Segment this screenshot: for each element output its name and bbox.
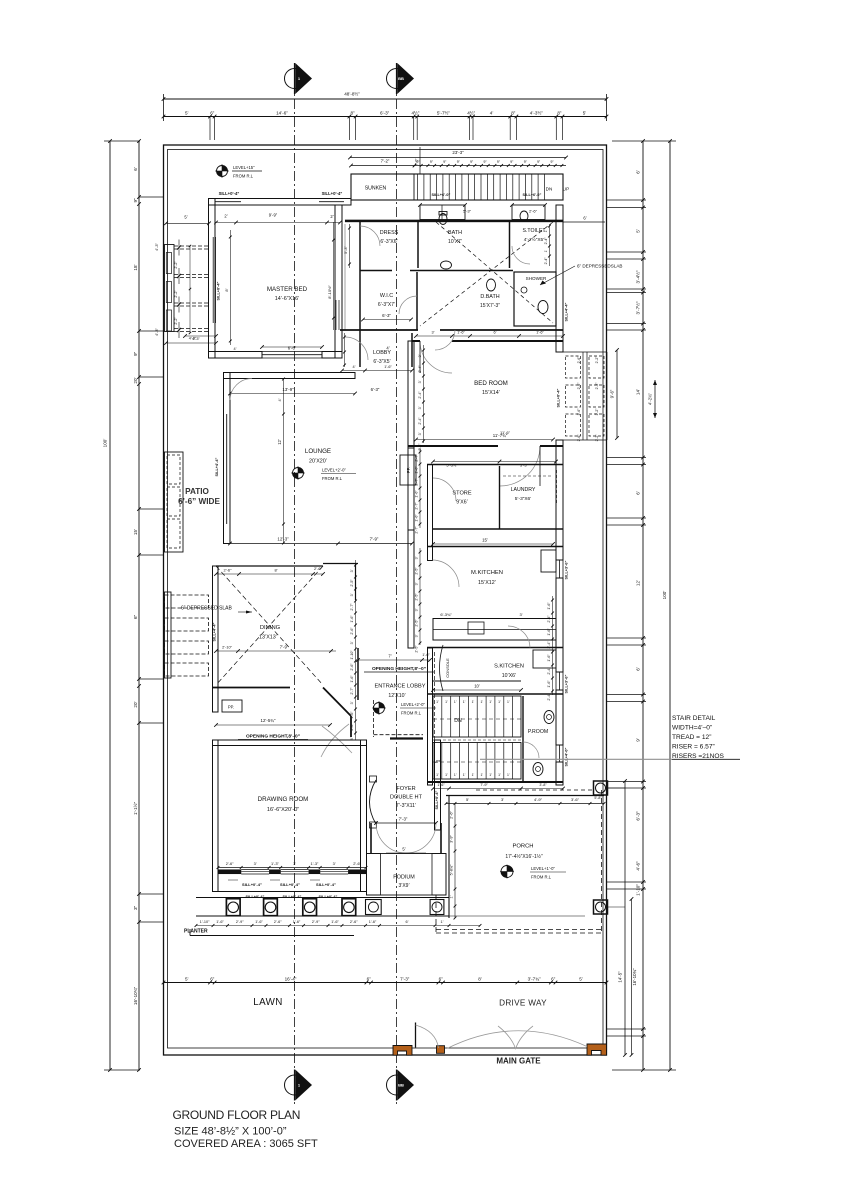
svg-text:3’-6”: 3’-6” — [571, 797, 580, 802]
right tick rows — [607, 199, 646, 201]
svg-text:5’: 5’ — [185, 111, 189, 116]
gate post right — [587, 1044, 607, 1055]
porch top dim row — [446, 803, 604, 805]
svg-text:SILL+4’-0”: SILL+4’-0” — [565, 747, 569, 766]
dining north dim — [216, 573, 323, 575]
lounge south dim — [230, 543, 412, 545]
hall vertical dim right of master — [344, 224, 346, 330]
svg-text:2’-2”: 2’-2” — [595, 357, 599, 364]
svg-text:3’: 3’ — [415, 582, 419, 585]
svg-text:10’X7’: 10’X7’ — [448, 239, 462, 245]
porch level symbol — [501, 866, 513, 878]
svg-text:ENTRANCE LOBBY: ENTRANCE LOBBY — [375, 684, 426, 690]
svg-text:1’-6”: 1’-6” — [422, 653, 430, 657]
svg-text:1’: 1’ — [480, 773, 483, 777]
svg-text:2’-5”: 2’-5” — [415, 645, 419, 653]
svg-text:M.KITCHEN: M.KITCHEN — [471, 570, 503, 576]
patio door arc lounge — [230, 379, 252, 401]
lounge level symbol — [293, 468, 304, 479]
svg-text:15’: 15’ — [133, 529, 138, 535]
master bed east wall — [335, 205, 342, 358]
svg-text:CONSOLE: CONSOLE — [445, 658, 450, 678]
svg-text:3’: 3’ — [415, 556, 419, 559]
dining 12-5 dim — [216, 724, 330, 726]
svg-text:7’-3”: 7’-3” — [400, 977, 410, 982]
building top wall — [209, 199, 352, 206]
right dim line inner — [642, 141, 644, 1070]
bedroom top dim row — [416, 335, 563, 337]
drawing east wall — [361, 740, 367, 892]
svg-text:5’: 5’ — [402, 847, 405, 852]
porch dashed left stub — [435, 895, 437, 933]
master south wall segment east — [322, 352, 342, 359]
svg-text:5’: 5’ — [185, 977, 189, 982]
section line A — [294, 63, 296, 1105]
svg-text:3’-7¾”: 3’-7¾” — [528, 977, 541, 982]
svg-text:LEVEL+2’-0”: LEVEL+2’-0” — [401, 702, 425, 707]
porch west wall — [448, 796, 450, 919]
svg-text:2’-6”: 2’-6” — [223, 568, 232, 573]
svg-text:SILL+3’-6”: SILL+3’-6” — [565, 674, 569, 693]
dining north edge — [216, 565, 323, 567]
UP treads — [441, 743, 443, 780]
lobby bottom dim row — [342, 370, 412, 372]
closet above s.toilet — [512, 205, 545, 220]
wicket door arc — [416, 1025, 439, 1048]
svg-text:SILL+0’-4”: SILL+0’-4” — [322, 191, 343, 196]
svg-text:3’: 3’ — [418, 380, 422, 383]
svg-text:2’-6”: 2’-6” — [226, 861, 234, 866]
svg-text:SILL+4’-4”: SILL+4’-4” — [565, 302, 569, 321]
column C3 — [303, 899, 317, 916]
svg-text:2’-2”: 2’-2” — [174, 317, 178, 325]
svg-text:2’-4”: 2’-4” — [544, 258, 548, 265]
building west wall master block — [209, 199, 216, 359]
master south window — [262, 351, 322, 353]
svg-text:5’-3”X6’: 5’-3”X6’ — [515, 496, 532, 502]
svg-text:1’: 1’ — [463, 773, 466, 777]
svg-text:7’-9”: 7’-9” — [370, 537, 379, 542]
bedroom north wall — [412, 340, 420, 342]
svg-text:BATH: BATH — [448, 230, 462, 236]
left bay dashed bands — [174, 245, 209, 247]
svg-text:1’: 1’ — [472, 700, 475, 704]
left bay cross ticks — [177, 245, 181, 249]
svg-text:2’-7”: 2’-7” — [415, 454, 419, 462]
DN treads — [441, 696, 443, 737]
svg-text:3’: 3’ — [501, 797, 504, 802]
dbath wc — [487, 279, 496, 291]
store door arc — [433, 478, 456, 501]
dim ladder left of entrance — [355, 560, 357, 740]
bedroom bay window right — [563, 351, 607, 353]
svg-text:7’-9”: 7’-9” — [280, 645, 289, 650]
svg-text:6”: 6” — [551, 977, 556, 982]
wic east wall — [416, 272, 418, 330]
svg-text:1’: 1’ — [436, 700, 439, 704]
svg-text:6’: 6’ — [133, 167, 138, 171]
kitchen west door arc — [433, 560, 460, 587]
svg-text:3’X9’: 3’X9’ — [398, 883, 409, 889]
svg-text:1’-6”: 1’-6” — [350, 711, 354, 719]
svg-text:5’: 5’ — [184, 215, 187, 220]
left chain stub ticks — [139, 196, 164, 198]
svg-text:1’-6”: 1’-6” — [350, 615, 354, 623]
svg-text:PP.: PP. — [228, 705, 234, 710]
svg-text:6”: 6” — [133, 614, 138, 619]
dining west wall — [213, 566, 219, 712]
podium box — [367, 854, 447, 896]
small ticks row above bath closets — [418, 203, 422, 207]
spine wall lounge east lower — [408, 530, 414, 648]
svg-text:2’-7”: 2’-7” — [350, 687, 354, 695]
svg-text:2’: 2’ — [224, 214, 227, 219]
svg-text:2’-5”: 2’-5” — [415, 567, 419, 575]
svg-text:4’-3”: 4’-3” — [155, 327, 159, 335]
svg-text:SIZE 48’-8½” X 100’-0”: SIZE 48’-8½” X 100’-0” — [174, 1126, 287, 1138]
dining planter left col — [165, 592, 172, 678]
section line B — [396, 63, 398, 1105]
east wall window proom — [555, 745, 557, 762]
svg-text:SILL+6’-0”: SILL+6’-0” — [523, 193, 542, 197]
svg-text:FROM R.L: FROM R.L — [322, 476, 343, 481]
entrance angled wall 2 — [350, 716, 352, 737]
svg-text:1’: 1’ — [454, 773, 457, 777]
svg-text:2’-7”: 2’-7” — [415, 526, 419, 534]
svg-text:1’: 1’ — [450, 895, 454, 898]
svg-text:LEVEL+15”: LEVEL+15” — [233, 165, 255, 170]
porch west dim chain — [454, 804, 456, 919]
svg-text:1’: 1’ — [498, 773, 501, 777]
svg-text:3’: 3’ — [350, 701, 354, 704]
section marker bottom B — [387, 1075, 407, 1095]
svg-text:3’: 3’ — [418, 406, 422, 409]
lobby east wall — [411, 333, 413, 367]
plot boundary inner — [168, 150, 604, 1049]
svg-text:1’-6”: 1’-6” — [547, 654, 551, 662]
store south wall — [433, 528, 563, 530]
east wall segment 3 — [556, 578, 563, 672]
svg-text:OPENING HEIGHT,8’–0”: OPENING HEIGHT,8’–0” — [246, 734, 301, 740]
svg-text:PLANTER: PLANTER — [184, 929, 208, 935]
svg-text:1’: 1’ — [489, 773, 492, 777]
svg-text:W.I.C: W.I.C — [380, 293, 393, 299]
svg-text:18’: 18’ — [133, 264, 138, 270]
svg-text:1’-6”: 1’-6” — [536, 331, 544, 335]
svg-text:2’-9”: 2’-9” — [312, 920, 320, 924]
foyer side walls low — [370, 823, 372, 853]
svg-text:6’: 6’ — [636, 667, 641, 671]
svg-text:2’-6”: 2’-6” — [274, 920, 282, 924]
lounge north wall — [224, 373, 356, 379]
svg-text:1’-6”: 1’-6” — [255, 920, 263, 924]
colonnade stub to porch columns — [449, 915, 585, 917]
svg-text:GROUND FLOOR PLAN: GROUND FLOOR PLAN — [173, 1108, 301, 1122]
svg-text:4’: 4’ — [234, 347, 237, 351]
svg-text:9”: 9” — [524, 160, 527, 164]
svg-text:2’-5”: 2’-5” — [415, 593, 419, 601]
svg-text:2’-4”: 2’-4” — [547, 615, 551, 623]
svg-text:1’-6”: 1’-6” — [369, 920, 377, 924]
svg-text:SUNKEN: SUNKEN — [365, 186, 387, 192]
svg-text:4½”: 4½” — [411, 110, 419, 116]
kitchen north wall — [427, 546, 563, 548]
gate leaf V arcs — [498, 1026, 533, 1049]
store laundry divider — [499, 466, 501, 529]
svg-text:4’: 4’ — [353, 365, 356, 369]
patio left bay — [165, 452, 184, 552]
wall dining ne to entrance — [323, 563, 358, 565]
svg-text:S.KITCHEN: S.KITCHEN — [494, 664, 524, 670]
svg-text:9”: 9” — [483, 160, 486, 164]
left bay window master strip — [165, 245, 175, 332]
svg-text:1’: 1’ — [454, 700, 457, 704]
extension stubs top — [209, 117, 211, 141]
svg-text:8’: 8’ — [478, 977, 482, 982]
svg-text:5’-3”: 5’-3” — [344, 245, 348, 253]
colonnade line upper — [196, 897, 449, 899]
svg-text:LOBBY: LOBBY — [373, 350, 391, 356]
level note top left symbol — [217, 166, 228, 177]
shaft dim left of dress — [349, 224, 351, 268]
porch dashed bottom edge — [436, 929, 604, 931]
svg-text:9”: 9” — [443, 160, 446, 164]
top wall window 2 — [319, 198, 344, 200]
sunken inner divider — [413, 174, 415, 200]
drawing south wall piers — [218, 870, 241, 875]
svg-text:6’-3¾”: 6’-3¾” — [440, 612, 452, 617]
svg-text:9’X6’: 9’X6’ — [456, 500, 468, 506]
svg-text:4’: 4’ — [278, 398, 282, 401]
dining X diagonal 2 — [216, 566, 323, 685]
svg-text:2’-2”: 2’-2” — [595, 383, 599, 390]
dim 23-3 above stairs — [350, 157, 566, 159]
svg-text:4’-9”: 4’-9” — [534, 797, 543, 802]
svg-text:3’: 3’ — [432, 331, 435, 335]
left dim chain segments — [138, 141, 140, 1070]
svg-text:FOYER: FOYER — [396, 786, 415, 792]
svg-text:D.BATH: D.BATH — [480, 294, 499, 300]
svg-text:2’-6”: 2’-6” — [314, 566, 323, 571]
svg-text:1’: 1’ — [472, 773, 475, 777]
drawing south outer line — [218, 891, 366, 893]
stub at porch columns right — [608, 787, 626, 789]
lounge north dim 13-9 — [230, 393, 355, 395]
svg-text:12’: 12’ — [277, 439, 282, 445]
kitchen sink — [468, 622, 484, 634]
svg-text:3’: 3’ — [415, 634, 419, 637]
svg-text:15’X7’-3”: 15’X7’-3” — [480, 303, 500, 309]
proom west wall — [522, 696, 524, 782]
dim 6ft to boundary right of corridor — [563, 221, 605, 223]
svg-text:7’: 7’ — [388, 654, 391, 659]
porch column bottom right — [594, 900, 608, 914]
bath diagonal dashed X — [436, 222, 553, 323]
svg-text:1’-6”: 1’-6” — [547, 628, 551, 636]
svg-text:3’-7½”: 3’-7½” — [635, 301, 641, 314]
svg-text:3’: 3’ — [350, 593, 354, 596]
svg-text:6’: 6’ — [636, 170, 641, 174]
svg-text:6’-3”X7’: 6’-3”X7’ — [378, 302, 395, 308]
svg-text:SHOWER: SHOWER — [526, 276, 547, 281]
top stair treads — [417, 174, 419, 200]
svg-text:6’-3”: 6’-3” — [380, 111, 390, 116]
skitchen 10 dim — [433, 689, 521, 691]
svg-text:BB: BB — [398, 1083, 404, 1088]
master door arc from lobby — [345, 337, 368, 360]
svg-text:DN: DN — [546, 187, 553, 192]
svg-text:1’-6”: 1’-6” — [216, 920, 224, 924]
svg-text:1’-6”: 1’-6” — [457, 331, 465, 335]
svg-text:SILL+0’-4”: SILL+0’-4” — [280, 882, 300, 887]
gate post left — [393, 1046, 412, 1056]
dining planter dashed rows — [165, 595, 209, 608]
svg-text:6’: 6’ — [494, 331, 497, 335]
svg-text:SILL+0’-4”: SILL+0’-4” — [557, 388, 561, 407]
svg-text:8’: 8’ — [224, 288, 229, 291]
svg-text:SILL+0’-4”: SILL+0’-4” — [246, 895, 265, 899]
bottom dim chain — [164, 982, 607, 984]
proom wc 2 — [533, 763, 543, 776]
left bay mid dim — [189, 246, 191, 333]
bedroom south wall — [408, 445, 498, 447]
svg-text:SILL+4’-4”: SILL+4’-4” — [215, 457, 219, 476]
store west wall — [428, 465, 433, 561]
dimension chain top overall 48-8 — [164, 98, 607, 100]
svg-text:SILL+0’-4”: SILL+0’-4” — [216, 281, 220, 300]
gate small block — [437, 1046, 445, 1054]
svg-text:2’-2”: 2’-2” — [174, 290, 178, 298]
svg-text:11’-6”: 11’-6” — [500, 430, 511, 435]
plot boundary outer — [164, 145, 607, 1055]
svg-text:9”: 9” — [133, 351, 138, 356]
svg-text:9’-9”: 9’-9” — [269, 213, 278, 218]
svg-text:UP: UP — [563, 187, 569, 192]
dining X diagonal 1 — [216, 566, 323, 685]
svg-text:6’: 6’ — [406, 920, 409, 924]
svg-text:16’-4”: 16’-4” — [285, 977, 297, 982]
svg-text:5’: 5’ — [579, 977, 583, 982]
svg-text:1’-10”: 1’-10” — [200, 920, 210, 924]
svg-text:5’: 5’ — [583, 111, 587, 116]
svg-text:MAIN GATE: MAIN GATE — [496, 1057, 541, 1066]
svg-text:1’-6”: 1’-6” — [415, 514, 419, 522]
svg-text:PORCH: PORCH — [513, 844, 534, 850]
svg-text:2’-2”: 2’-2” — [174, 261, 178, 269]
bedroom south door arc — [500, 446, 540, 486]
svg-text:3’: 3’ — [418, 432, 422, 435]
dining pp box — [222, 700, 242, 712]
window in master east wall lower — [335, 300, 337, 330]
svg-text:1’: 1’ — [436, 773, 439, 777]
drawing west wall — [213, 740, 219, 892]
dbath door arc — [435, 330, 455, 350]
svg-text:12’-5¾”: 12’-5¾” — [261, 718, 276, 723]
stair DN flight box — [433, 696, 521, 737]
svg-text:DRIVE WAY: DRIVE WAY — [499, 999, 547, 1008]
svg-text:1’-10”: 1’-10” — [350, 650, 354, 660]
skitchen bottom wall — [427, 693, 563, 695]
svg-text:WIDTH=4’–0”: WIDTH=4’–0” — [672, 725, 712, 732]
skitchen counter line — [433, 680, 521, 682]
svg-text:1’-1½”: 1’-1½” — [132, 802, 138, 815]
svg-text:5’-3½”: 5’-3½” — [446, 463, 458, 468]
svg-text:9’-6”: 9’-6” — [610, 389, 615, 398]
svg-text:BB: BB — [398, 76, 404, 81]
svg-text:3’: 3’ — [418, 354, 422, 357]
svg-text:LEVEL+1’-0”: LEVEL+1’-0” — [531, 866, 555, 871]
svg-text:2’-4”: 2’-4” — [418, 365, 422, 373]
right bedroom window vertical dim — [616, 350, 618, 438]
spine wall lounge east upper — [408, 448, 414, 530]
section marker bottom A — [285, 1075, 305, 1095]
svg-text:48’-8½”: 48’-8½” — [344, 91, 360, 97]
dimension chain top segments — [164, 116, 607, 118]
foyer 7-3 dim — [376, 822, 436, 824]
svg-text:7’-2”: 7’-2” — [381, 159, 390, 164]
gate arch arc — [447, 1031, 587, 1049]
podium inner steps right — [432, 854, 446, 896]
svg-text:3’: 3’ — [293, 861, 296, 866]
foyer bottom arcs — [376, 823, 406, 853]
svg-text:4’-2¾”: 4’-2¾” — [648, 392, 653, 404]
svg-text:FROM R.L: FROM R.L — [401, 711, 422, 716]
svg-text:SILL+4’-4”: SILL+4’-4” — [213, 622, 217, 641]
svg-text:1’-6”: 1’-6” — [547, 602, 551, 610]
laundry dashed inner line — [503, 475, 553, 477]
svg-text:6” DEPRESSEDSLAB: 6” DEPRESSEDSLAB — [577, 264, 622, 269]
svg-text:15’X12’: 15’X12’ — [478, 580, 496, 586]
entrance west wall — [357, 648, 359, 700]
dim ladder bedroom west — [423, 345, 425, 443]
svg-text:DRESS: DRESS — [380, 230, 399, 236]
svg-text:2’-6”: 2’-6” — [350, 723, 354, 731]
svg-text:2’-7”: 2’-7” — [350, 603, 354, 611]
svg-text:SILL+3’-6”: SILL+3’-6” — [565, 560, 569, 579]
svg-text:6”: 6” — [439, 977, 444, 982]
svg-text:1’-3”: 1’-3” — [271, 861, 279, 866]
svg-text:2’-6”: 2’-6” — [353, 861, 361, 866]
svg-text:2’-7”: 2’-7” — [415, 502, 419, 510]
svg-text:20’: 20’ — [133, 377, 138, 383]
bedroom dim 11-7 — [416, 439, 553, 441]
svg-text:13’-9”: 13’-9” — [282, 387, 294, 392]
dress east wall — [417, 222, 419, 268]
skitchen box right — [533, 650, 556, 668]
svg-text:14’-6”: 14’-6” — [276, 111, 288, 116]
svg-text:9”: 9” — [537, 160, 540, 164]
podium inner steps left — [367, 854, 381, 896]
svg-text:LAWN: LAWN — [253, 997, 283, 1008]
svg-text:2’-6”: 2’-6” — [577, 409, 581, 416]
svg-text:3”: 3” — [133, 905, 138, 910]
porch top dashed line — [476, 789, 594, 791]
kitchen 15 dim — [433, 543, 553, 545]
colonnade dim row — [196, 925, 480, 927]
svg-text:6’-3”X6’: 6’-3”X6’ — [380, 239, 397, 245]
dress door arc — [360, 226, 380, 246]
svg-text:2’-5”: 2’-5” — [415, 619, 419, 627]
svg-text:1’: 1’ — [441, 920, 444, 924]
svg-text:6”: 6” — [210, 977, 215, 982]
svg-text:8”: 8” — [350, 111, 355, 116]
svg-text:6’-6”: 6’-6” — [288, 346, 297, 351]
svg-text:1’-6”: 1’-6” — [350, 675, 354, 683]
svg-text:2’-6”: 2’-6” — [577, 383, 581, 390]
svg-text:1’: 1’ — [544, 249, 548, 252]
svg-text:2’-6”: 2’-6” — [450, 810, 454, 818]
dim ladder store west — [419, 448, 421, 528]
